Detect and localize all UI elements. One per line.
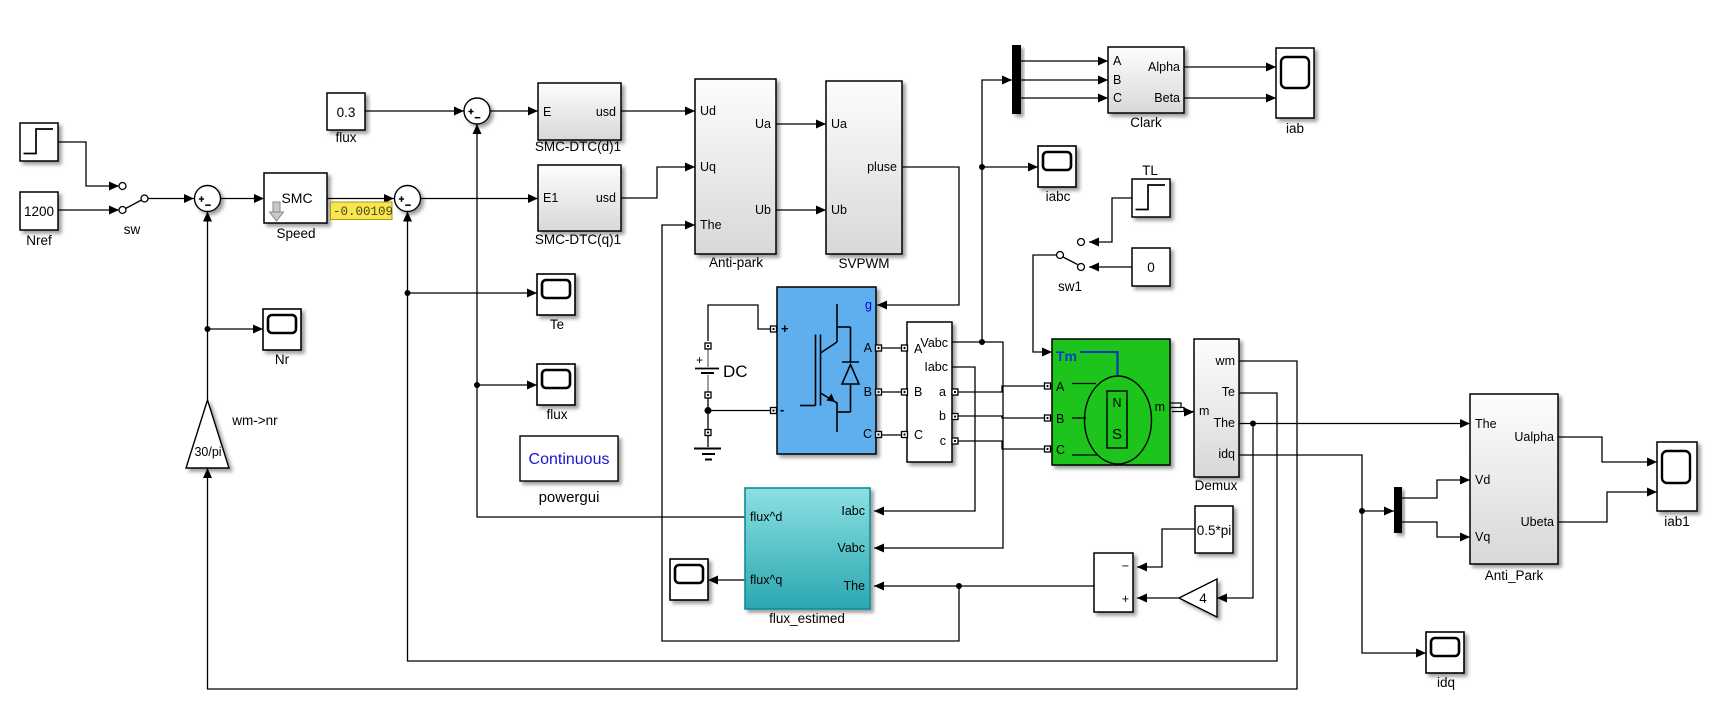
svg-text:Ud: Ud <box>700 104 716 118</box>
svg-text:idq: idq <box>1218 447 1235 461</box>
svg-text:C: C <box>1113 91 1122 105</box>
svg-text:The: The <box>700 218 722 232</box>
svg-text:B: B <box>914 385 922 399</box>
svg-text:Anti-park: Anti-park <box>709 255 763 270</box>
svg-text:sw1: sw1 <box>1058 279 1082 294</box>
svg-text:E1: E1 <box>543 191 558 205</box>
svg-text:Anti_Park: Anti_Park <box>1485 568 1544 583</box>
svg-text:Alpha: Alpha <box>1148 60 1180 74</box>
svg-text:C: C <box>914 428 923 442</box>
svg-text:Ua: Ua <box>755 117 771 131</box>
svg-text:Uq: Uq <box>700 160 716 174</box>
svg-text:B: B <box>864 385 872 399</box>
svg-text:0: 0 <box>1147 260 1155 275</box>
svg-text:Ubeta: Ubeta <box>1521 515 1554 529</box>
svg-text:iab1: iab1 <box>1664 514 1690 529</box>
svg-text:E: E <box>543 105 551 119</box>
svg-text:S: S <box>1112 426 1122 443</box>
svg-text:A: A <box>1113 54 1122 68</box>
svg-text:Iabc: Iabc <box>924 360 948 374</box>
svg-text:Beta: Beta <box>1154 91 1180 105</box>
svg-text:sw: sw <box>124 222 141 237</box>
svg-text:-0.00109: -0.00109 <box>333 205 393 219</box>
svg-text:g: g <box>865 298 872 312</box>
svg-text:Te: Te <box>1222 385 1235 399</box>
svg-text:iab: iab <box>1286 121 1304 136</box>
svg-text:N: N <box>1112 396 1121 410</box>
svg-text:wm->nr: wm->nr <box>231 413 278 428</box>
svg-text:wm: wm <box>1215 354 1235 368</box>
svg-text:SMC-DTC(q)1: SMC-DTC(q)1 <box>535 232 621 247</box>
svg-text:A: A <box>864 341 873 355</box>
svg-text:Ualpha: Ualpha <box>1514 430 1554 444</box>
svg-text:Demux: Demux <box>1195 478 1238 493</box>
svg-text:Ub: Ub <box>755 203 771 217</box>
svg-text:C: C <box>1056 443 1065 457</box>
svg-text:Speed: Speed <box>276 226 315 241</box>
svg-text:pluse: pluse <box>867 160 897 174</box>
svg-text:c: c <box>940 434 946 448</box>
svg-text:SMC-DTC(d)1: SMC-DTC(d)1 <box>535 139 621 154</box>
svg-text:Continuous: Continuous <box>529 451 610 468</box>
svg-text:powergui: powergui <box>539 489 600 506</box>
svg-text:usd: usd <box>596 105 616 119</box>
svg-text:m: m <box>1199 404 1209 418</box>
svg-text:flux^q: flux^q <box>750 573 782 587</box>
svg-text:usd: usd <box>596 191 616 205</box>
svg-text:Ua: Ua <box>831 117 847 131</box>
svg-text:a: a <box>939 385 946 399</box>
svg-text:b: b <box>939 409 946 423</box>
svg-text:iabc: iabc <box>1046 189 1071 204</box>
svg-text:B: B <box>1113 73 1121 87</box>
svg-text:0.3: 0.3 <box>337 105 356 120</box>
svg-text:0.5*pi: 0.5*pi <box>1197 523 1232 538</box>
svg-text:The: The <box>1213 416 1235 430</box>
svg-text:Nref: Nref <box>26 233 52 248</box>
svg-text:Tm: Tm <box>1056 348 1077 364</box>
svg-text:A: A <box>1056 380 1065 394</box>
svg-text:Ub: Ub <box>831 203 847 217</box>
svg-text:Vq: Vq <box>1475 530 1490 544</box>
svg-text:SMC: SMC <box>281 190 312 206</box>
svg-text:+: + <box>696 353 703 367</box>
svg-text:Vabc: Vabc <box>920 336 948 350</box>
svg-text:m: m <box>1155 400 1165 414</box>
svg-text:The: The <box>843 579 865 593</box>
svg-text:TL: TL <box>1142 163 1158 178</box>
svg-text:+: + <box>781 321 789 336</box>
svg-text:4: 4 <box>1199 591 1207 606</box>
svg-text:flux: flux <box>546 407 567 422</box>
svg-text:+: + <box>1122 592 1129 606</box>
svg-text:C: C <box>863 427 872 441</box>
svg-text:idq: idq <box>1437 675 1455 690</box>
svg-text:Iabc: Iabc <box>841 504 865 518</box>
svg-text:-: - <box>780 402 784 417</box>
svg-text:−: − <box>1122 559 1129 573</box>
svg-text:flux^d: flux^d <box>750 510 782 524</box>
svg-text:Nr: Nr <box>275 352 290 367</box>
svg-text:DC: DC <box>723 362 748 381</box>
svg-text:SVPWM: SVPWM <box>838 256 889 271</box>
svg-text:Clark: Clark <box>1130 115 1162 130</box>
svg-text:Vd: Vd <box>1475 473 1490 487</box>
svg-text:Te: Te <box>550 317 564 332</box>
svg-text:30/pi: 30/pi <box>194 445 221 459</box>
svg-text:The: The <box>1475 417 1497 431</box>
svg-text:flux: flux <box>335 130 356 145</box>
svg-text:flux_estimed: flux_estimed <box>769 611 845 626</box>
svg-text:Vabc: Vabc <box>837 541 865 555</box>
svg-text:1200: 1200 <box>24 204 54 219</box>
svg-text:B: B <box>1056 412 1064 426</box>
